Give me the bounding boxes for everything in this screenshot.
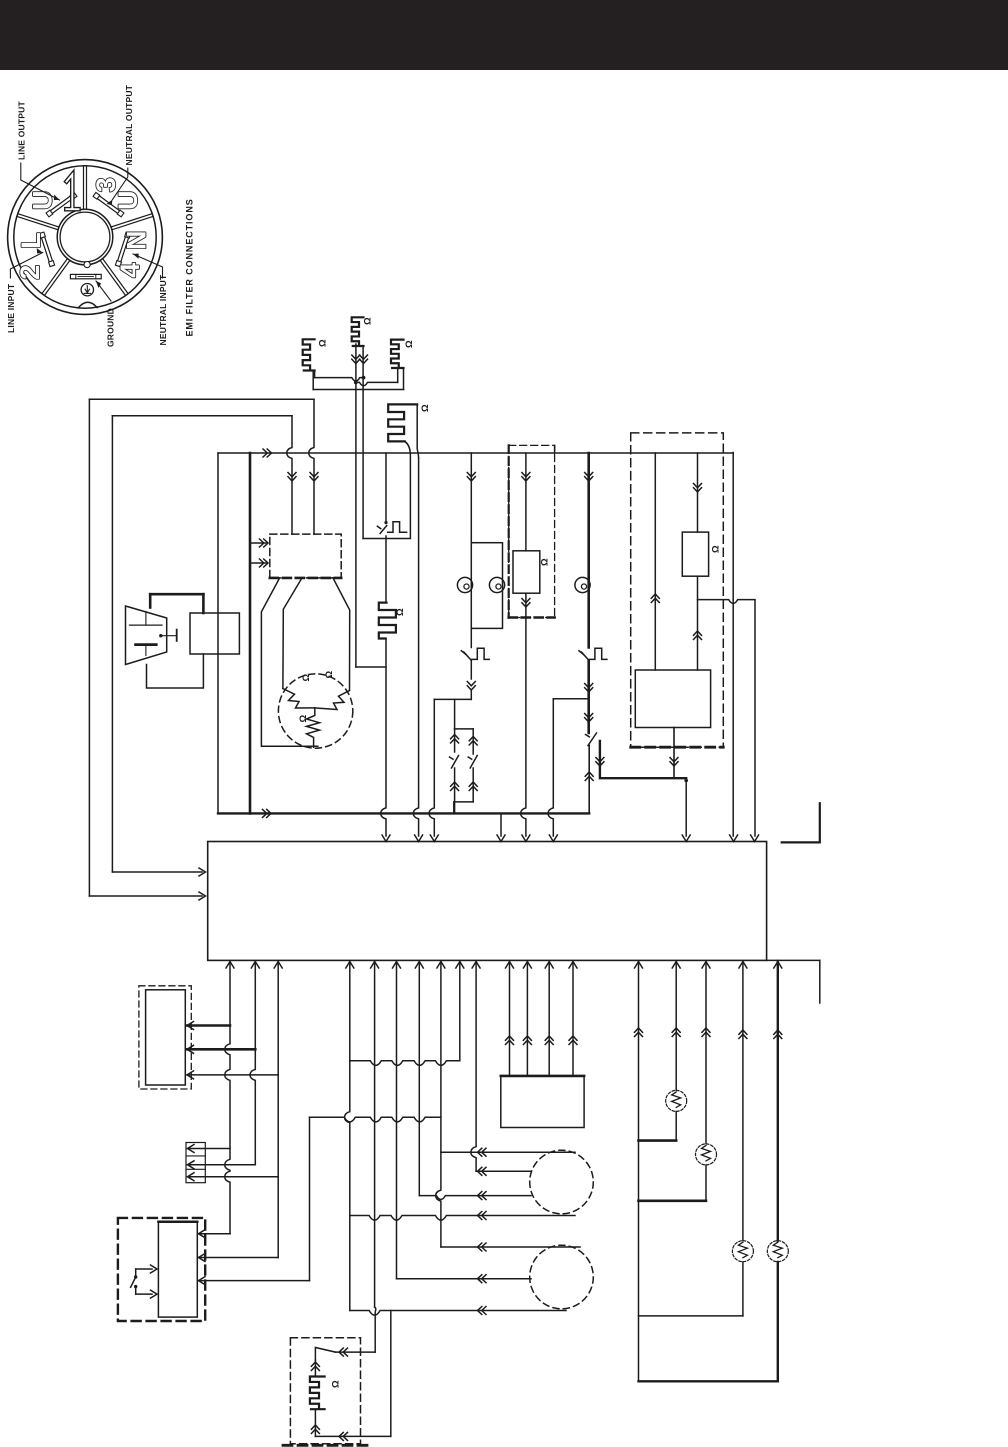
svg-text:L: L	[16, 232, 46, 249]
svg-text:4: 4	[115, 263, 145, 278]
svg-text:Ω: Ω	[324, 671, 335, 679]
svg-text:NEUTRAL OUTPUT: NEUTRAL OUTPUT	[124, 84, 134, 165]
svg-text:Ω: Ω	[363, 317, 374, 325]
svg-text:EMI FILTER CONNECTIONS: EMI FILTER CONNECTIONS	[185, 198, 195, 336]
svg-text:Ω: Ω	[331, 1380, 342, 1388]
svg-text:Ω: Ω	[711, 545, 722, 553]
svg-text:NEUTRAL INPUT: NEUTRAL INPUT	[158, 274, 168, 346]
svg-text:N: N	[122, 231, 152, 251]
svg-text:LINE OUTPUT: LINE OUTPUT	[16, 101, 26, 160]
svg-text:2: 2	[15, 265, 45, 280]
svg-text:LINE INPUT: LINE INPUT	[6, 283, 16, 333]
svg-text:Ω: Ω	[318, 339, 329, 347]
svg-text:Ω: Ω	[540, 558, 551, 566]
svg-text:Ω: Ω	[298, 715, 309, 723]
svg-text:3: 3	[91, 177, 121, 192]
svg-text:GROUND: GROUND	[106, 308, 116, 347]
svg-text:Ω: Ω	[395, 608, 406, 616]
svg-text:U: U	[113, 191, 143, 211]
svg-text:U: U	[28, 191, 58, 211]
svg-text:Ω: Ω	[404, 340, 415, 348]
svg-text:Ω: Ω	[301, 674, 312, 682]
svg-text:Ω: Ω	[420, 404, 431, 412]
